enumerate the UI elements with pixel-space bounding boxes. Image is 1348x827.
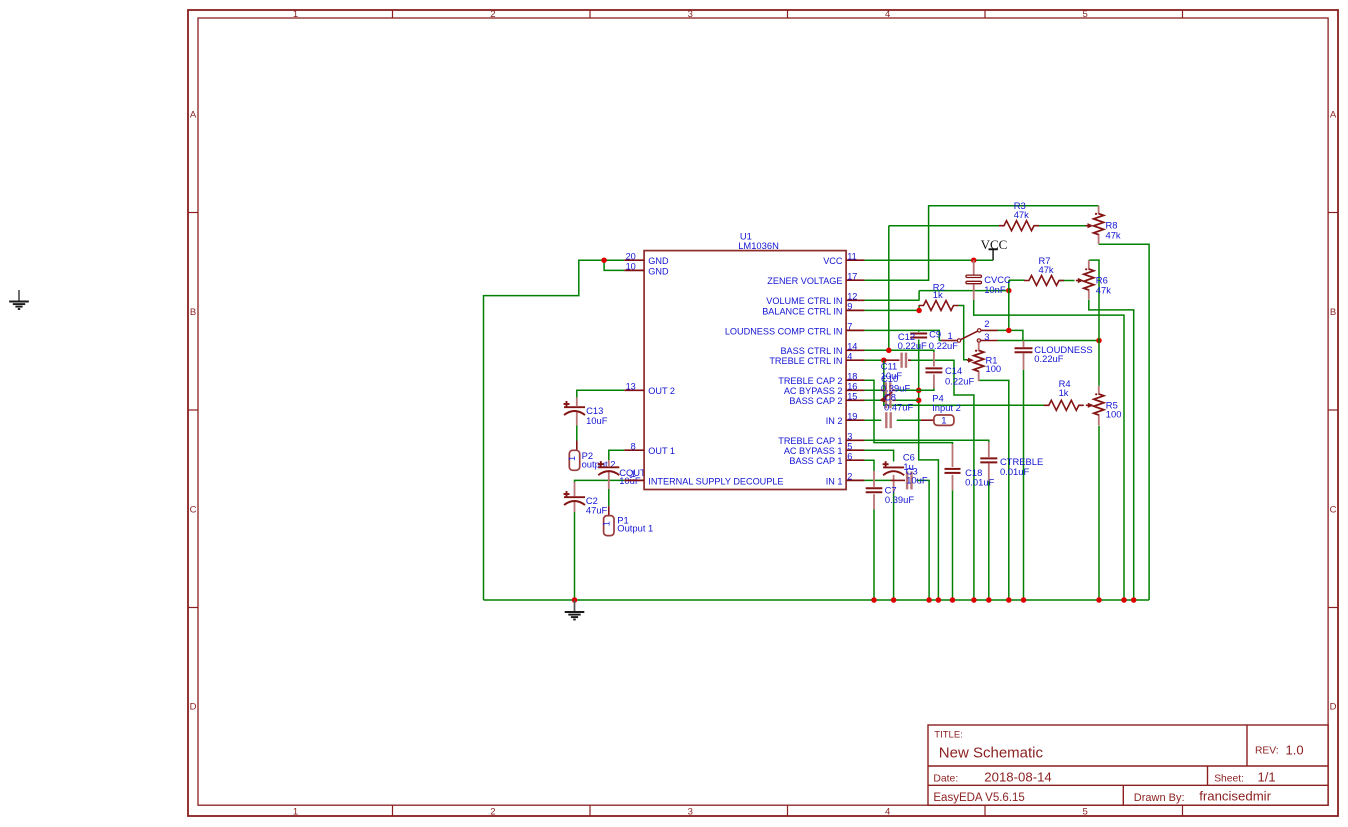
IC U1 LM1036N xyxy=(624,231,864,490)
ground (left margin) xyxy=(9,290,29,309)
wire pin4 node to R4 xyxy=(884,360,1044,405)
lead C2 top xyxy=(574,482,576,496)
wire R6 top to R5 top xyxy=(1089,260,1099,386)
svg-text:2: 2 xyxy=(847,472,852,482)
svg-text:100: 100 xyxy=(1106,408,1122,419)
pin 8 OUT 1 (left) xyxy=(624,449,644,451)
svg-text:GND: GND xyxy=(648,256,669,266)
svg-text:10uF: 10uF xyxy=(906,475,928,486)
lead C2 bottom xyxy=(574,502,576,512)
lead CLOUDNESS top xyxy=(1023,341,1025,348)
svg-text:C9: C9 xyxy=(929,328,941,339)
wire C10 right xyxy=(896,399,919,401)
lead C14 top xyxy=(933,352,935,367)
wire pin3 to CTREBLE xyxy=(864,440,988,442)
svg-text:7: 7 xyxy=(847,322,852,332)
svg-text:3: 3 xyxy=(688,9,693,20)
svg-text:2: 2 xyxy=(984,318,989,329)
capacitor C3 xyxy=(907,471,911,489)
pin 5 AC BYPASS 1 (right) xyxy=(846,449,864,451)
wire R5 bottom to bus xyxy=(1098,426,1100,600)
capacitor C9 xyxy=(910,334,927,338)
svg-text:BASS CAP 1: BASS CAP 1 xyxy=(789,456,842,466)
wire R2 right to R1 wiper xyxy=(959,306,968,360)
wire C6 to bus xyxy=(893,492,895,600)
capacitor C11 leads xyxy=(881,389,884,391)
lead C7 top xyxy=(873,471,875,487)
wire pin19 to C8 xyxy=(864,419,881,421)
svg-text:10uF: 10uF xyxy=(586,415,608,426)
wire switch pin3 to R6-R5 line xyxy=(998,340,1100,342)
junction bus xyxy=(1131,597,1137,603)
svg-text:LM1036N: LM1036N xyxy=(738,240,779,251)
wiper arrow R6 xyxy=(1076,280,1080,282)
wire OUT1 to COUT1 xyxy=(609,450,625,460)
pin 13 OUT 2 (left) xyxy=(624,389,644,391)
wire C9 bottom to bus xyxy=(919,340,939,601)
wire OUT2 to C13 xyxy=(577,390,625,397)
svg-text:4: 4 xyxy=(885,806,890,817)
svg-text:1: 1 xyxy=(941,416,946,427)
svg-text:TREBLE CAP 2: TREBLE CAP 2 xyxy=(778,376,842,386)
lead CTREBLE top xyxy=(988,442,990,457)
capacitor C8 xyxy=(886,412,890,428)
wire C7 to bus xyxy=(873,510,875,601)
pin 20 GND (left) xyxy=(624,259,644,261)
svg-text:47uF: 47uF xyxy=(586,505,608,516)
junction bus xyxy=(1121,597,1127,603)
lead switch pin1 to R1 xyxy=(978,341,980,343)
pin 6 BASS CAP 1 (right) xyxy=(846,459,864,461)
wire pin7 loudness to switch xyxy=(864,330,941,340)
wire R7 left xyxy=(1009,279,1025,281)
svg-text:AC BYPASS 2: AC BYPASS 2 xyxy=(784,386,843,396)
svg-text:1: 1 xyxy=(293,9,298,20)
svg-text:0.22uF: 0.22uF xyxy=(898,340,927,351)
switch SW1 xyxy=(941,329,998,343)
pin 11 VCC (right) xyxy=(846,259,864,261)
wire pin6 to C7 xyxy=(864,460,874,471)
svg-text:VCC: VCC xyxy=(823,256,843,266)
svg-text:6: 6 xyxy=(847,452,852,462)
svg-text:1: 1 xyxy=(567,456,577,461)
svg-text:0.39uF: 0.39uF xyxy=(885,494,914,505)
svg-text:INTERNAL SUPPLY DECOUPLE: INTERNAL SUPPLY DECOUPLE xyxy=(648,476,783,486)
junction bus xyxy=(936,597,942,603)
wire pin10 GND xyxy=(604,260,624,270)
svg-text:47k: 47k xyxy=(1096,285,1111,296)
wire CTREBLE to bus xyxy=(988,481,990,600)
wire C11 right xyxy=(895,389,919,391)
title block xyxy=(928,725,1328,805)
pin 14 BASS CTRL IN (right) xyxy=(846,349,864,351)
wire pin15 to C10 xyxy=(864,399,881,401)
wire pin4 to C12 xyxy=(864,359,883,361)
junction bus xyxy=(871,597,877,603)
junction bus xyxy=(1006,597,1012,603)
svg-text:REV:: REV: xyxy=(1255,746,1279,757)
capacitor CVCC xyxy=(966,275,982,284)
lead P1 pin xyxy=(608,506,610,515)
svg-text:4: 4 xyxy=(847,352,852,362)
wiper arrow R5 xyxy=(1086,404,1090,406)
svg-text:IN 2: IN 2 xyxy=(826,416,843,426)
svg-text:1: 1 xyxy=(601,521,611,526)
svg-text:A: A xyxy=(190,110,197,121)
svg-text:GND: GND xyxy=(648,266,669,276)
svg-text:AC BYPASS 1: AC BYPASS 1 xyxy=(784,446,843,456)
pin 10 GND (left) xyxy=(624,269,644,271)
wire C2 to ground bus xyxy=(574,512,576,600)
svg-text:100: 100 xyxy=(986,363,1002,374)
capacitor CLOUDNESS xyxy=(1015,348,1033,352)
pin 3 TREBLE CAP 1 (right) xyxy=(846,439,864,441)
svg-text:9: 9 xyxy=(847,302,852,312)
svg-text:1k: 1k xyxy=(933,289,943,300)
svg-text:Sheet:: Sheet: xyxy=(1214,773,1244,784)
wire C18 to bus xyxy=(952,490,954,600)
lead C18 bottom xyxy=(952,475,954,491)
svg-text:10nF: 10nF xyxy=(984,284,1006,295)
pin 7 LOUDNESS COMP CTRL IN (right) xyxy=(846,329,864,331)
wire CLOUDNESS to bus xyxy=(1023,370,1025,600)
svg-text:11: 11 xyxy=(847,252,857,262)
svg-text:0.01uF: 0.01uF xyxy=(965,477,994,488)
svg-text:IN 1: IN 1 xyxy=(826,476,843,486)
svg-text:EasyEDA V5.6.15: EasyEDA V5.6.15 xyxy=(933,792,1024,804)
lead C7 bottom xyxy=(873,494,875,509)
wire C3 right to bus xyxy=(917,480,930,600)
junction CVCC-R7 vertical xyxy=(1006,288,1012,294)
wire CVCC bottom to bus xyxy=(974,300,1124,600)
wire pin11 VCC rail xyxy=(864,259,993,261)
wire C12 right to bus xyxy=(909,360,974,600)
junction bus xyxy=(891,597,897,603)
wire pin16 to C11 xyxy=(864,389,880,391)
pin 16 AC BYPASS 2 (right) xyxy=(846,389,864,391)
wire pin20 GND xyxy=(604,259,624,261)
capacitor C14 xyxy=(925,368,942,372)
svg-text:ZENER VOLTAGE: ZENER VOLTAGE xyxy=(767,276,842,286)
svg-text:2018-08-14: 2018-08-14 xyxy=(984,770,1051,785)
wire R1 bottom to bus xyxy=(979,380,1009,600)
svg-text:B: B xyxy=(190,307,196,318)
svg-text:Date:: Date: xyxy=(933,773,958,784)
svg-text:1k: 1k xyxy=(1059,387,1069,398)
resistor R2 xyxy=(919,301,959,311)
svg-text:47k: 47k xyxy=(1106,229,1121,240)
port P4 xyxy=(934,415,954,427)
svg-text:5: 5 xyxy=(847,442,852,452)
capacitor CTREBLE xyxy=(980,458,997,462)
wire R2 node to CVCC node xyxy=(919,290,1009,292)
polarity mark C11/C10 xyxy=(881,392,893,400)
capacitor C18 xyxy=(945,469,961,473)
port P1 xyxy=(601,516,614,536)
svg-text:Output 1: Output 1 xyxy=(617,523,653,534)
wire CVCC-node vertical upper xyxy=(918,291,920,301)
svg-text:D: D xyxy=(190,702,197,713)
wire pin12 xyxy=(864,299,919,301)
junction C9-pin16 row xyxy=(916,388,922,394)
wiper arrow R1 xyxy=(967,359,970,361)
svg-text:BALANCE CTRL IN: BALANCE CTRL IN xyxy=(762,306,842,316)
capacitor C12 xyxy=(902,353,906,368)
svg-text:0.22uF: 0.22uF xyxy=(945,375,974,386)
polarized capacitor C2 xyxy=(564,491,586,505)
svg-text:0.22uF: 0.22uF xyxy=(929,340,958,351)
pin 2 IN 1 (right) xyxy=(846,479,864,481)
svg-text:3: 3 xyxy=(984,331,989,342)
svg-text:0.22uF: 0.22uF xyxy=(1034,353,1063,364)
svg-text:Drawn By:: Drawn By: xyxy=(1134,792,1185,804)
junction pin9-R2 xyxy=(916,308,922,314)
resistor R4 xyxy=(1044,400,1084,410)
svg-text:47k: 47k xyxy=(1014,209,1029,220)
wire R3 to R8 wiper xyxy=(1039,225,1086,227)
capacitor C10 xyxy=(886,392,890,408)
junction sw2 node xyxy=(1006,328,1012,334)
pin 15 BASS CAP 2 (right) xyxy=(846,399,864,401)
svg-text:1: 1 xyxy=(293,806,298,817)
net flag VCC xyxy=(981,237,1008,260)
port P2 xyxy=(567,450,580,470)
capacitor C11 xyxy=(886,382,890,398)
wire R3 left xyxy=(889,225,999,227)
wire CVCC node vertical xyxy=(1008,280,1010,330)
svg-text:14: 14 xyxy=(847,342,857,352)
pin 9 BALANCE CTRL IN (right) xyxy=(846,309,864,311)
resistor R3 xyxy=(999,221,1039,231)
svg-text:C: C xyxy=(190,504,197,515)
svg-text:A: A xyxy=(1330,110,1337,121)
svg-text:2: 2 xyxy=(490,9,495,20)
wire C8 to P4 xyxy=(897,419,921,421)
svg-text:TREBLE CTRL IN: TREBLE CTRL IN xyxy=(769,356,842,366)
wire C9 top stub xyxy=(918,330,920,331)
svg-text:3: 3 xyxy=(847,432,852,442)
svg-text:10: 10 xyxy=(626,262,636,272)
svg-text:1/1: 1/1 xyxy=(1258,770,1276,785)
svg-text:OUT 2: OUT 2 xyxy=(648,386,675,396)
polarized capacitor C6 xyxy=(883,461,905,475)
svg-text:D: D xyxy=(1330,702,1337,713)
svg-text:16: 16 xyxy=(847,382,857,392)
svg-text:2: 2 xyxy=(490,806,495,817)
junction bus xyxy=(1021,597,1027,603)
svg-text:TREBLE CAP 1: TREBLE CAP 1 xyxy=(778,436,842,446)
lead C18 top xyxy=(952,444,954,467)
svg-text:New Schematic: New Schematic xyxy=(939,745,1044,762)
wire ground bus xyxy=(484,599,1150,601)
lead COUT1 bottom xyxy=(608,472,610,489)
junction pin4 branch xyxy=(881,357,887,363)
potentiometer R8 xyxy=(1094,206,1104,244)
wire pin17 zener to R8 top xyxy=(864,206,1098,281)
wire pin2 to C3 xyxy=(864,479,890,481)
pin 17 ZENER VOLTAGE (right) xyxy=(846,279,864,281)
wire GND loop left xyxy=(484,260,605,600)
lead CVCC bottom xyxy=(973,284,975,299)
svg-text:VCC: VCC xyxy=(981,237,1008,252)
lead CTREBLE bottom xyxy=(988,464,990,482)
svg-text:4: 4 xyxy=(885,9,890,20)
wire switch pin2 node xyxy=(998,330,1023,340)
svg-text:1: 1 xyxy=(631,469,636,479)
wire R7 to R6 wiper xyxy=(1059,280,1075,282)
svg-text:LOUDNESS COMP CTRL IN: LOUDNESS COMP CTRL IN xyxy=(725,326,843,336)
svg-text:0.47uF: 0.47uF xyxy=(884,401,913,412)
svg-text:18: 18 xyxy=(847,372,857,382)
svg-text:OUT 1: OUT 1 xyxy=(648,446,675,456)
svg-text:3: 3 xyxy=(688,806,693,817)
lead C14 bottom xyxy=(933,374,935,388)
junction C9-pin15 row xyxy=(916,398,922,404)
svg-text:Input 2: Input 2 xyxy=(932,402,961,413)
pin 4 TREBLE CTRL IN (right) xyxy=(846,359,864,361)
potentiometer R5 xyxy=(1094,386,1104,426)
wire pin14 to C14 top xyxy=(864,350,934,352)
svg-text:BASS CTRL IN: BASS CTRL IN xyxy=(780,346,842,356)
wire pin1 to C2 xyxy=(575,480,625,482)
wire C14 bottom link xyxy=(919,389,934,391)
svg-text:C: C xyxy=(1330,504,1337,515)
junction pin3-R5R6 xyxy=(1096,338,1102,344)
wire R3-left vertical to pin14 row xyxy=(888,226,890,351)
potentiometer R1 xyxy=(974,341,984,382)
svg-text:1.0: 1.0 xyxy=(1286,742,1304,757)
wire pin5 to C6 xyxy=(864,450,893,461)
wire COUT1 to P1 xyxy=(608,489,610,506)
wire R6 bottom to bus xyxy=(1089,300,1134,600)
svg-text:47k: 47k xyxy=(1039,264,1054,275)
junction bus xyxy=(971,597,977,603)
junction bus xyxy=(950,597,956,603)
potentiometer R6 xyxy=(1084,260,1094,299)
capacitor C7 xyxy=(866,488,883,492)
junction bus xyxy=(986,597,992,603)
wire pin9 xyxy=(864,309,919,311)
lead C13 top xyxy=(576,398,578,407)
lead C6 bottom xyxy=(893,475,895,492)
svg-text:13: 13 xyxy=(626,382,636,392)
svg-text:0.01uF: 0.01uF xyxy=(1000,466,1029,477)
svg-text:B: B xyxy=(1330,307,1336,318)
svg-text:BASS CAP 2: BASS CAP 2 xyxy=(789,396,842,406)
lead CVCC top xyxy=(973,260,975,275)
junction pin14-R3 branch xyxy=(886,348,892,354)
junction GND pins xyxy=(601,257,607,263)
lead P2 pin xyxy=(576,441,578,451)
lead CLOUDNESS bottom xyxy=(1023,353,1025,369)
wiper arrow R8 xyxy=(1086,225,1090,227)
svg-text:20: 20 xyxy=(626,252,636,262)
wire R8 bottom to bus xyxy=(1099,244,1150,600)
pin 12 VOLUME CTRL IN (right) xyxy=(846,299,864,301)
svg-text:19: 19 xyxy=(847,412,857,422)
junction C2-bus xyxy=(572,597,578,603)
svg-text:5: 5 xyxy=(1082,9,1087,20)
svg-text:8: 8 xyxy=(631,442,636,452)
polarized capacitor CQUT1 xyxy=(598,461,620,475)
resistor R7 xyxy=(1024,276,1064,286)
junction bus xyxy=(1096,597,1102,603)
polarized capacitor C13 xyxy=(564,401,586,415)
lead COUT1 top xyxy=(608,460,610,466)
wire R2 left stub xyxy=(918,306,920,311)
pin 19 IN 2 (right) xyxy=(846,419,864,421)
junction VCC-CVCC xyxy=(971,257,977,263)
svg-text:francisedmir: francisedmir xyxy=(1199,788,1271,803)
svg-text:VOLUME CTRL IN: VOLUME CTRL IN xyxy=(766,296,842,306)
wire C13 to P2 xyxy=(576,426,578,441)
ground GND xyxy=(565,601,585,620)
pin 18 TREBLE CAP 2 (right) xyxy=(846,379,864,381)
junction bus xyxy=(926,597,932,603)
svg-text:17: 17 xyxy=(847,272,857,282)
svg-text:TITLE:: TITLE: xyxy=(934,729,963,740)
lead C13 bottom xyxy=(576,412,578,426)
capacitor C10 leads xyxy=(881,399,884,401)
wire pin18 to C18 xyxy=(864,380,952,444)
svg-text:15: 15 xyxy=(847,392,857,402)
svg-text:5: 5 xyxy=(1082,806,1087,817)
svg-text:12: 12 xyxy=(847,292,857,302)
pin 1 INTERNAL SUPPLY DECOUPLE (left) xyxy=(624,479,644,481)
